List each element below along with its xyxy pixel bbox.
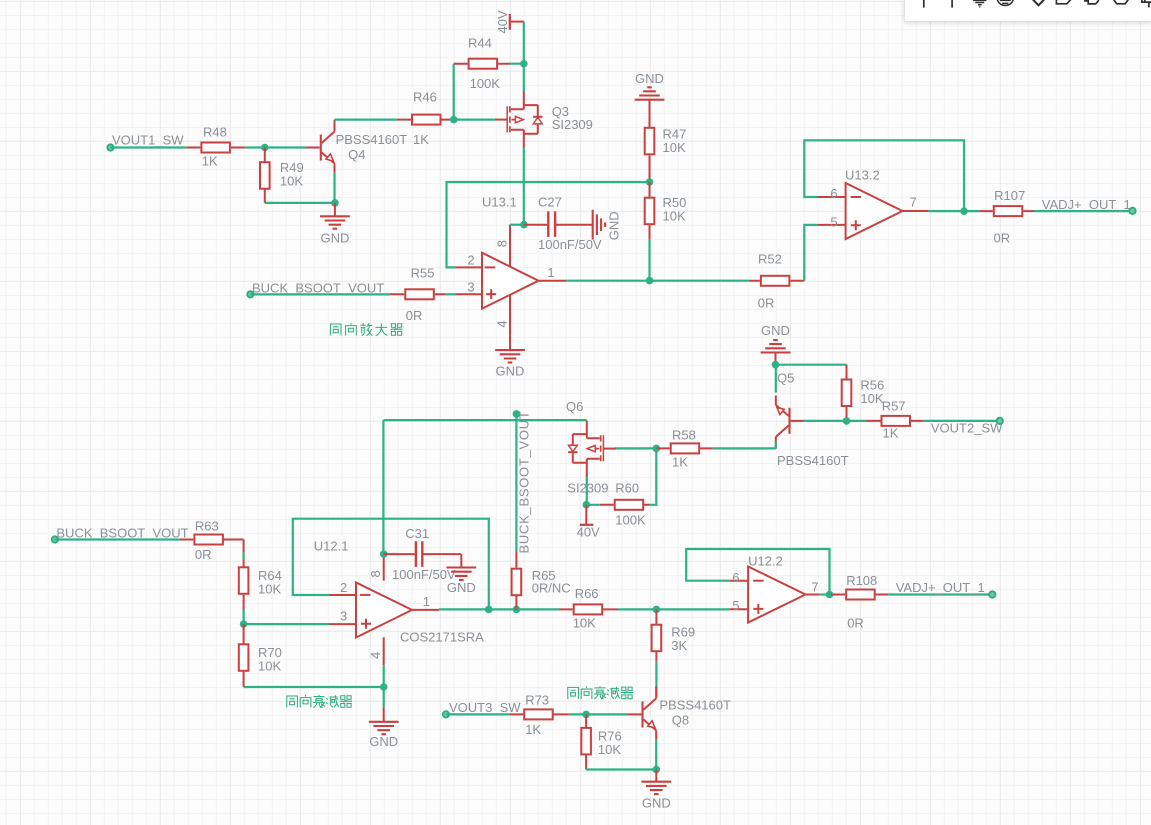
node VADJ+_OUT_1 (top) <box>1042 197 1136 214</box>
wire R44 to 40V node <box>510 22 524 92</box>
resistor R60 100K <box>600 481 650 528</box>
wire R70 bottom to pin4 ground run <box>244 686 384 688</box>
transistor Q3 SI2309 <box>495 92 538 148</box>
junction GND/Q5/R56 <box>772 361 780 369</box>
junction output/R50 <box>646 277 654 285</box>
junction R73/R76 <box>582 711 590 719</box>
ground below Q4 <box>320 203 350 246</box>
resistor R46 1K <box>397 90 450 147</box>
toolbar icon: sheet pin <box>1142 0 1151 7</box>
wire R49 bottom to Q4 emitter <box>265 202 335 204</box>
op-amp U13.2 <box>817 168 929 239</box>
resistor R108 0R <box>831 573 888 631</box>
wire R63 corner to R64 <box>243 553 245 560</box>
ground below U13.1 pin4 <box>495 335 525 378</box>
transistor Q4 PBSS4160T <box>305 120 334 173</box>
wire pin8 to C31 node <box>384 553 388 555</box>
wire U12.2 output <box>819 593 831 595</box>
junction R60/Q6/40V <box>583 501 591 509</box>
node VOUT1_SW <box>107 133 184 151</box>
ground below U12.1 <box>369 707 399 749</box>
toolbar icon: netflag <box>1031 0 1046 5</box>
wire U12.1 output row <box>439 608 559 610</box>
junction output/feedback <box>960 207 968 215</box>
capacitor C27 100nF/50V <box>524 195 602 252</box>
wire Q6 gate to R58 <box>615 447 657 449</box>
resistor R66 10K <box>559 586 618 631</box>
wire R57 to VOUT2_SW <box>924 420 1000 422</box>
resistor R65 0R/NC <box>512 552 571 610</box>
resistor R44 100K <box>454 36 510 91</box>
wire U13.1 feedback top <box>447 182 650 267</box>
wire U13.2 pin6 feedback loop <box>804 140 964 211</box>
wire U13.1 output <box>566 280 749 282</box>
junction R69/pin5 <box>653 606 661 614</box>
ground below Q8 <box>641 769 671 810</box>
capacitor C31 100nF/50V <box>384 526 462 582</box>
wire pin8 to C27 node <box>510 224 524 226</box>
resistor R48 1K <box>186 125 245 169</box>
junction R47/R50/feedback <box>646 178 654 186</box>
wire R50 to output <box>648 239 650 280</box>
annotation 同向衰减器 (left) <box>284 694 286 696</box>
ground right of C31 <box>446 568 476 595</box>
resistor R58 1K <box>656 428 712 470</box>
op-amp U12.2 <box>730 554 819 623</box>
ground right of C27 (rotated) <box>593 210 622 240</box>
wire pin4 to ground <box>383 665 385 707</box>
wire Q4 collector to R46 <box>335 118 397 120</box>
transistor Q5 PBSS4160T (rotated) <box>776 396 805 449</box>
wire port to R63 <box>55 538 179 540</box>
junction R46/R44 <box>450 116 458 124</box>
wire R48 to Q4 base <box>245 146 306 148</box>
junction output/feedback U12.2 <box>826 591 834 599</box>
junction at 40V/R44/Q3 <box>520 60 528 68</box>
junction C27/pin8/Q3 <box>520 221 528 229</box>
wire R60 to Q6 drain node <box>586 475 600 505</box>
junction R64/R70/pin3 <box>240 620 248 628</box>
junction R65/output <box>513 606 521 614</box>
wire R69 to Q8 collector <box>655 661 657 696</box>
junction at R48/R49 <box>261 144 269 152</box>
wire supply row from Q6 to U12.1 riser <box>383 420 586 554</box>
toolbar icon: netport left <box>1085 0 1099 4</box>
wire port to R55 <box>250 293 390 295</box>
toolbar icon: pin2 <box>951 0 953 8</box>
wire Q5 collector to R58 <box>713 442 776 449</box>
node VOUT2_SW <box>931 418 1003 436</box>
resistor R64 10K <box>239 560 282 610</box>
resistor R52 0R <box>749 252 804 311</box>
wire BUCK_BSOOT_VOUT vertical <box>515 414 517 552</box>
annotation 同向衰减器 (right) <box>565 685 567 687</box>
junction pin4/R70 <box>380 683 388 691</box>
ground above Q5 <box>761 323 791 365</box>
resistor R70 10K <box>239 624 282 687</box>
transistor Q6 SI2309 <box>573 421 616 477</box>
wire port to R73 <box>446 713 509 715</box>
wire R52 riser to U13.2 pin5 <box>804 225 817 281</box>
wire R46 to Q3 gate with riser to R44 <box>450 64 495 120</box>
toolbar icon: pin <box>923 0 925 8</box>
wire U12.1 feedback loop <box>293 519 489 610</box>
toolbar icon: netport right <box>1056 0 1070 4</box>
junction C31/pin8 <box>380 550 388 558</box>
power flag 40V <box>495 10 524 33</box>
resistor R63 0R <box>179 519 243 562</box>
annotation text 同向衰减器 (left) <box>287 695 352 708</box>
wire R64 to pin3 row <box>244 610 329 624</box>
resistor R47 10K <box>645 127 687 182</box>
wire U13.2 output <box>929 210 980 212</box>
power flag 40V (bottom) <box>577 505 600 540</box>
node VADJ+_OUT_1 (bottom) <box>896 580 996 598</box>
annotation 同向放大器 <box>328 322 330 324</box>
wire Q3 drain down to C27 node <box>523 148 525 225</box>
junction at emitter/GND <box>331 199 339 207</box>
resistor R55 0R <box>390 266 445 323</box>
wire U12.2 pin6 feedback loop <box>686 549 829 595</box>
wire VOUT1_SW to R48 <box>111 146 187 148</box>
wire R107 to VADJ+_OUT_1 <box>1034 210 1133 212</box>
toolbar icon: hex port <box>1113 0 1129 4</box>
annotation text 同向放大器 <box>330 323 402 336</box>
transistor Q8 PBSS4160T <box>627 687 656 740</box>
junction BUCK vertical top <box>513 410 521 418</box>
junction R56/R57/base <box>843 417 851 425</box>
junction feedback/output <box>485 606 493 614</box>
ground above R47 <box>635 71 665 127</box>
junction R58/R60 <box>653 445 661 453</box>
wire R58 node down to R60 <box>650 448 657 504</box>
resistor R69 3K <box>652 609 696 661</box>
annotation text 同向衰减器 (right) <box>568 686 633 699</box>
resistor R50 10K <box>645 182 687 239</box>
wire Q5 base row <box>804 420 867 422</box>
node BUCK_BSOOT_VOUT (top) <box>247 281 384 298</box>
wire R73 to Q8 base <box>569 713 627 715</box>
toolbar icon: ground <box>973 0 986 7</box>
resistor R57 1K <box>866 399 923 441</box>
wire Q4 emitter down <box>333 173 335 203</box>
resistor R56 10K <box>842 365 885 421</box>
toolbar icon: earth ground <box>997 0 1014 6</box>
resistor R76 10K <box>581 714 621 769</box>
wire R66 to pin5 <box>618 608 730 610</box>
resistor R73 1K <box>509 693 569 738</box>
op-amp U13.1 <box>456 194 567 335</box>
resistor R107 0R <box>980 188 1034 246</box>
op-amp U12.1 COS2171SRA <box>314 539 484 666</box>
junction emitter/GND Q8 <box>653 766 661 774</box>
wire R55 to pin3 <box>445 293 455 295</box>
wire Q5 emitter node to R56 top <box>776 365 847 393</box>
wire R108 to VADJ+_OUT_1 <box>888 593 992 595</box>
resistor R49 10K <box>260 148 304 203</box>
node VOUT3_SW <box>443 700 521 718</box>
wire R76 bottom to Q8 emitter <box>586 740 656 770</box>
node BUCK_BSOOT_VOUT (bottom) <box>52 526 189 543</box>
